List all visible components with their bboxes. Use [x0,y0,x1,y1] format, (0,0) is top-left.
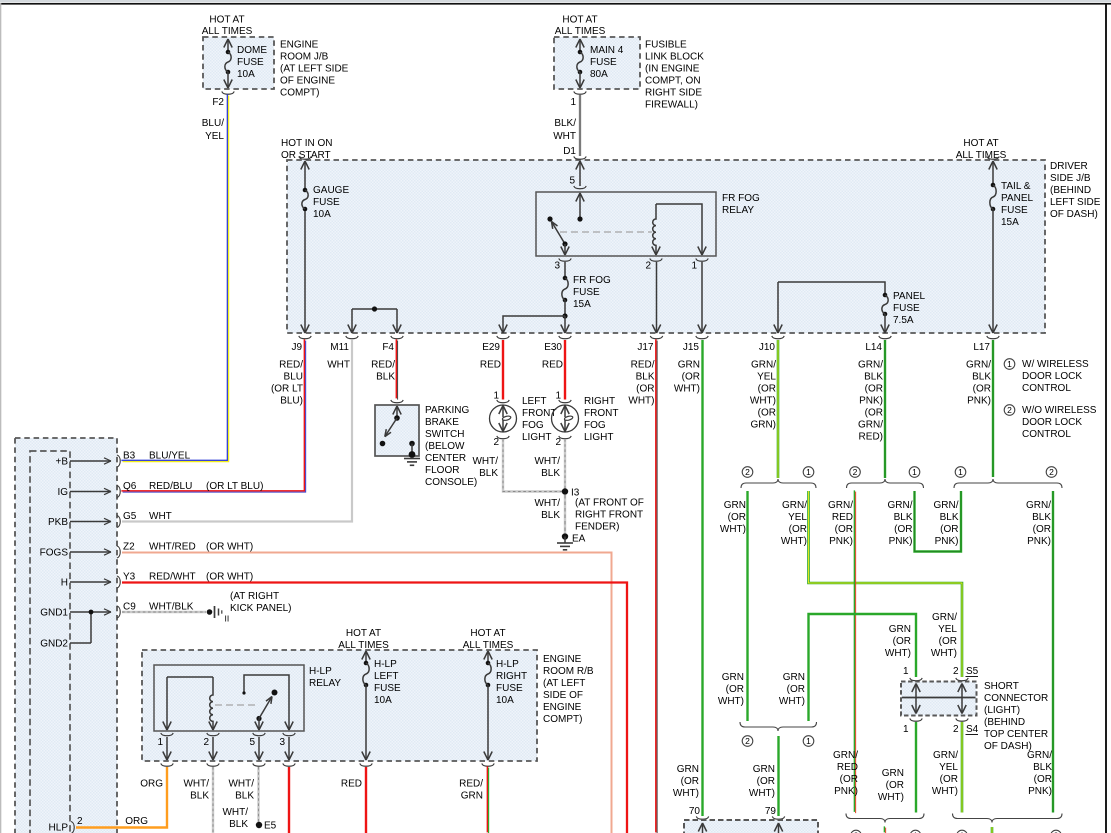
svg-text:(LIGHT): (LIGHT) [984,705,1020,716]
arrow into S5 pin2 [958,684,962,693]
svg-text:(OR: (OR [940,524,958,535]
svg-text:PNK): PNK) [967,396,991,407]
svg-text:L14: L14 [865,342,882,353]
ground EA [562,533,568,539]
arrow hlp pin1 [163,722,167,731]
svg-text:GRN/: GRN/ [933,750,958,761]
svg-text:BLK: BLK [541,468,560,479]
svg-text:3: 3 [554,261,560,272]
svg-text:WHT: WHT [553,131,576,142]
svg-text:ENGINE: ENGINE [543,654,582,665]
svg-text:COMPT): COMPT) [280,88,319,99]
svg-text:WHT): WHT) [885,648,911,659]
wire GRN S5 pin1 loop to merge [809,614,917,721]
svg-text:ROOM J/B: ROOM J/B [280,52,329,63]
svg-text:BLK: BLK [229,819,248,830]
svg-text:FUSE: FUSE [573,287,600,298]
parking brake right contact [409,441,415,447]
svg-text:+B: +B [55,457,68,468]
circled 2 at merge A [851,830,862,833]
svg-text:RIGHT: RIGHT [496,671,527,682]
svg-text:FR FOG: FR FOG [573,275,611,286]
svg-text:RED/: RED/ [371,360,395,371]
wire WHT/BLK pin5 to E5 [257,767,259,822]
svg-text:FLOOR: FLOOR [425,465,459,476]
svg-text:J15: J15 [683,342,700,353]
connector left fog pin 2 [497,436,509,439]
svg-text:GRN/: GRN/ [751,360,776,371]
wire GRN/BLK L17 to split [992,340,994,477]
circled 2 at merge B [1051,830,1062,833]
svg-text:(OR: (OR [787,684,805,695]
connector parking brake [391,400,403,403]
svg-text:OF DASH): OF DASH) [1050,209,1098,220]
svg-text:WHT/: WHT/ [534,456,560,467]
arrow relay pin2 [652,247,656,256]
legend circled 1 [1004,359,1015,370]
svg-text:H: H [61,578,68,589]
arrow into S5 pin1 [912,684,916,693]
svg-text:15A: 15A [573,299,591,310]
connector J15 [696,336,708,339]
svg-text:SIDE OF: SIDE OF [543,690,583,701]
svg-text:FUSE: FUSE [374,683,401,694]
svg-text:RED/: RED/ [279,360,303,371]
short connector bus bar [902,697,976,699]
wire pin3 to fuse [564,262,566,278]
svg-text:WHT): WHT) [779,696,805,707]
svg-text:(OR LT: (OR LT [271,384,303,395]
svg-text:ENGINE: ENGINE [280,40,319,51]
svg-text:WHT): WHT) [718,696,744,707]
wire GRN/BLK L14 to split [884,340,886,478]
svg-text:1: 1 [157,737,163,748]
wire RED/BLK J17 down [655,339,657,832]
svg-text:GND2: GND2 [40,639,68,650]
junction on branch [372,306,377,311]
svg-text:Q6: Q6 [123,481,137,492]
wire RED/BLU J9 to Q6 [121,339,304,491]
svg-text:CENTER: CENTER [425,453,466,464]
arrow hlp pin2 [209,722,213,731]
wire GRN/BLK jumper L14-1 to L17-1 [915,491,962,552]
svg-text:GRN/: GRN/ [782,500,807,511]
svg-text:(OR: (OR [636,384,654,395]
svg-text:RED/: RED/ [631,360,655,371]
svg-text:(OR: (OR [1034,774,1052,785]
svg-text:LEFT SIDE: LEFT SIDE [1050,197,1101,208]
svg-text:WHT): WHT) [674,384,700,395]
junction I3 [562,488,568,494]
merge bracket B [953,814,1063,823]
svg-text:HOT AT: HOT AT [470,628,505,639]
svg-text:GRN/: GRN/ [934,500,959,511]
circled 1 at J10 split [803,467,814,478]
svg-text:J17: J17 [637,342,654,353]
wire GRN/BLK L17-2 down [1052,491,1054,813]
switch PARKING BRAKE SWITCH box [375,405,419,456]
circled 2 at L14 split [850,467,861,478]
svg-text:LIGHT: LIGHT [584,432,613,443]
svg-text:RED: RED [832,512,853,523]
svg-text:1: 1 [555,391,561,402]
bottom junction box [684,820,818,833]
ground E5 [256,822,262,828]
svg-text:WHT/RED: WHT/RED [149,542,196,553]
circled 1 at merge A [910,830,921,833]
svg-text:RED: RED [480,360,501,371]
merge bracket 70/79 [740,722,817,731]
arrow into main4 [576,39,580,48]
wire main4 to pin1 [579,72,581,88]
svg-text:S4: S4 [966,724,979,735]
svg-text:5: 5 [569,176,575,187]
svg-text:2: 2 [645,261,651,272]
arrow hlp pin 2 exit [209,752,213,761]
svg-text:WHT): WHT) [750,396,776,407]
arrow J10 exit [774,325,778,334]
fuse H-LP RIGHT FUSE 10A [486,661,491,666]
connector tail entry [987,156,999,159]
wire D1 to relay pin5 [579,161,581,186]
arrow gauge entry [301,161,305,170]
svg-text:2: 2 [1007,405,1012,415]
svg-text:PNK): PNK) [1027,536,1051,547]
svg-text:(AT LEFT SIDE: (AT LEFT SIDE [280,64,349,75]
svg-text:10A: 10A [237,69,255,80]
arrow into pin 70 [698,823,702,832]
svg-text:MAIN 4: MAIN 4 [590,45,624,56]
svg-text:WHT): WHT) [628,396,654,407]
svg-text:1: 1 [806,467,811,477]
short connector block box [901,682,977,716]
wire RED pin3 down [288,767,290,833]
ground parking brake [404,458,420,460]
arrow L14 exit [881,325,885,334]
svg-text:LIGHT: LIGHT [522,432,551,443]
wire relay pin1 to J15 [701,262,703,333]
connector block outer box [15,438,117,833]
svg-text:IG: IG [57,487,68,498]
svg-text:GRN: GRN [677,764,699,775]
svg-text:2: 2 [555,437,561,448]
svg-text:(OR: (OR [681,776,699,787]
hlp relay blade [256,716,261,721]
svg-text:GRN/: GRN/ [888,500,913,511]
connector hlp pin 3 block exit [283,763,295,766]
connector hlp pin 1 block exit [161,763,173,766]
svg-text:10A: 10A [374,695,392,706]
svg-text:CONTROL: CONTROL [1022,383,1071,394]
circled 2 at J10 split [742,467,753,478]
svg-text:W/ WIRELESS: W/ WIRELESS [1022,359,1089,370]
svg-text:WHT/: WHT/ [228,779,254,790]
junction block ENGINE ROOM J/B [203,37,274,89]
svg-text:DOOR LOCK: DOOR LOCK [1022,417,1082,428]
connector hlp relay pin 3 [283,733,295,736]
arrow tail entry [989,161,993,170]
connector S4 pin1 cup [910,718,922,721]
arrow into parking brake [393,406,397,415]
arrow relay pin3 [561,247,565,256]
svg-text:2: 2 [77,816,83,827]
svg-text:GRN: GRN [461,791,483,802]
svg-text:WHT): WHT) [673,788,699,799]
svg-text:GRN/: GRN/ [833,750,858,761]
relay switch blade [552,222,566,245]
arrow hlp right fuse entry [484,651,488,660]
connector E30 [559,336,571,339]
svg-text:WHT): WHT) [749,788,775,799]
fuse PANEL FUSE 7.5A [883,293,888,298]
svg-text:1: 1 [691,261,697,272]
svg-text:PKB: PKB [48,517,68,528]
wire gauge to J9 [304,211,306,333]
svg-text:(OR: (OR [940,774,958,785]
wire dome to F2 [227,72,229,88]
svg-text:RED/: RED/ [459,779,483,790]
svg-text:L17: L17 [973,342,990,353]
svg-text:H-LP: H-LP [496,659,519,670]
svg-text:1: 1 [493,391,499,402]
fusible link block [554,37,640,89]
wire GRN J15 to pin70 [701,340,703,816]
svg-text:GRN/: GRN/ [828,500,853,511]
svg-text:RIGHT FRONT: RIGHT FRONT [575,510,643,521]
arrow J17 exit [652,325,656,334]
wire RED E30 to right fog [564,340,566,400]
wire WHT/BLK pin2 down [212,767,214,833]
svg-text:SWITCH: SWITCH [425,429,464,440]
svg-text:80A: 80A [590,69,608,80]
connector relay pin 3 [559,258,571,261]
svg-text:GRN: GRN [882,768,904,779]
arrow L17 exit [989,325,993,334]
svg-text:PNK): PNK) [834,786,858,797]
svg-text:PNK): PNK) [829,536,853,547]
wire branch to E29 [503,316,565,333]
svg-text:(OR: (OR [1033,524,1051,535]
wire GRN J10-2 to merge [746,491,748,721]
svg-text:(OR: (OR [939,636,957,647]
svg-text:FUSE: FUSE [496,683,523,694]
svg-text:(OR: (OR [757,776,775,787]
svg-text:WHT/: WHT/ [183,779,209,790]
wire GRN/YEL J10-1 to S5 pin2 [809,491,963,677]
relay FR FOG RELAY box [536,192,716,256]
connector hlp left fuse exit [360,763,372,766]
arrow relay pin1 [698,247,702,256]
relay H-LP RELAY box [154,665,304,731]
wire WHT/BLK right fog to I3 [564,439,566,489]
relay block ENGINE ROOM R/B [142,650,537,761]
connector gauge entry [299,156,311,159]
wire BLU/YEL F2 to B3 [121,94,227,460]
connector F2 [222,91,234,94]
hlp relay actuation dashed link [215,704,256,706]
wire panel to L14 [884,314,886,333]
svg-text:WHT): WHT) [878,792,904,803]
svg-text:WHT: WHT [327,360,350,371]
svg-text:EA: EA [572,534,586,545]
svg-text:B3: B3 [123,451,136,462]
svg-text:1: 1 [903,666,909,677]
svg-text:H-LP: H-LP [374,659,397,670]
wire tail feed [992,161,994,185]
wire hlp pin 3 drop [288,737,290,760]
svg-text:(AT FRONT OF: (AT FRONT OF [575,498,644,509]
svg-text:(OR: (OR [865,384,883,395]
circled 1 at L14 split [909,467,920,478]
svg-text:BLU): BLU) [280,396,303,407]
svg-text:(AT LEFT: (AT LEFT [543,678,585,689]
svg-text:FOG: FOG [584,420,606,431]
svg-text:HOT IN ON: HOT IN ON [281,138,332,149]
svg-text:(OR: (OR [789,524,807,535]
arrow E29 exit [499,325,503,334]
connector hlp pin 5 block exit [253,763,265,766]
svg-text:WHT): WHT) [781,536,807,547]
svg-text:BLK: BLK [864,372,883,383]
wire GRN/YEL merged stub B [991,827,994,833]
svg-text:(OR: (OR [865,408,883,419]
svg-text:BRAKE: BRAKE [425,417,459,428]
svg-text:OF ENGINE: OF ENGINE [280,76,335,87]
fuse GAUGE FUSE 10A [303,188,308,193]
svg-text:79: 79 [765,806,777,817]
wire WHT M11 to G5 [122,340,352,522]
circled 2 at 79 merge [742,736,753,747]
svg-text:PNK): PNK) [859,396,883,407]
wire WHT/BLK C9 to ground [122,611,206,613]
wire RED/GRN hlp right down [486,766,488,832]
connector block inner box [30,451,70,833]
wire RED/WHT Y3 down right side [122,583,627,833]
svg-text:2: 2 [493,437,499,448]
svg-text:(BEHIND: (BEHIND [984,717,1025,728]
svg-text:S5: S5 [966,666,979,677]
svg-text:ALL TIMES: ALL TIMES [338,640,389,651]
wire hlp pin 2 drop [212,737,214,760]
circled 1 at 79 merge [803,736,814,747]
svg-text:PNK): PNK) [935,536,959,547]
svg-text:RED: RED [542,360,563,371]
svg-text:GAUGE: GAUGE [313,185,349,196]
arrow out S4 pin2 [958,705,962,714]
svg-text:FRONT: FRONT [584,408,618,419]
svg-text:TOP CENTER: TOP CENTER [984,729,1048,740]
svg-text:7.5A: 7.5A [893,315,914,326]
arrow hlp left fuse entry [362,651,366,660]
wire BLK/WHT to D1 [579,95,581,156]
arrow main4 exit [576,80,580,89]
wire RED/BLK F4 to switch [395,339,397,398]
svg-text:GRN/: GRN/ [858,420,883,431]
wire hlp right fuse down [487,685,489,760]
svg-text:M11: M11 [330,342,349,353]
wire GRN/YEL J10 to split [777,340,780,478]
relay switch pivot [562,241,567,246]
connector relay pin 2 [650,258,662,261]
svg-text:J9: J9 [291,342,302,353]
svg-text:WHT): WHT) [932,786,958,797]
svg-text:2: 2 [953,724,959,735]
svg-text:(OR: (OR [893,636,911,647]
svg-text:COMPT, ON: COMPT, ON [645,76,701,87]
wire relay pin2 to J17 [656,262,658,333]
svg-text:RED: RED [341,779,362,790]
parking brake left contact [380,441,386,447]
svg-text:LEFT: LEFT [522,396,546,407]
svg-text:CONNECTOR: CONNECTOR [984,693,1048,704]
arrow J15 exit [698,325,702,334]
svg-text:BLK: BLK [940,512,959,523]
wire WHT/BLK left fog to I3 [503,439,563,492]
arrow hlp pin 1 exit [163,752,167,761]
svg-text:RIGHT SIDE: RIGHT SIDE [645,88,702,99]
relay switch fixed contact [547,216,552,221]
svg-text:1: 1 [903,724,909,735]
svg-text:(OR: (OR [840,774,858,785]
svg-text:GRN: GRN [724,500,746,511]
svg-text:RIGHT: RIGHT [584,396,615,407]
svg-text:HLP: HLP [49,823,69,833]
wire hlp right feed [487,651,489,663]
connector 1 (fusible link) [574,91,586,94]
split bracket L17 [954,479,1062,488]
svg-text:FENDER): FENDER) [575,522,619,533]
svg-text:ALL TIMES: ALL TIMES [463,640,514,651]
svg-text:G5: G5 [123,511,137,522]
svg-text:RED/BLU: RED/BLU [149,481,192,492]
svg-text:FUSE: FUSE [237,57,264,68]
svg-text:BLU/: BLU/ [202,118,224,129]
svg-text:DRIVER: DRIVER [1050,161,1088,172]
merge bracket A [846,814,924,823]
svg-text:10A: 10A [496,695,514,706]
svg-text:3: 3 [279,737,285,748]
svg-text:LEFT: LEFT [374,671,398,682]
svg-text:ORG: ORG [140,779,163,790]
svg-text:(OR: (OR [682,372,700,383]
wire dome feed [227,39,229,52]
svg-text:FUSE: FUSE [590,57,617,68]
svg-text:SHORT: SHORT [984,681,1019,692]
svg-text:ALL TIMES: ALL TIMES [555,26,606,37]
lamp LEFT FRONT FOG LIGHT [490,405,517,432]
hlp relay left bus [167,676,213,678]
svg-text:FUSIBLE: FUSIBLE [645,40,687,51]
wire fuse to junction [564,300,566,316]
svg-text:ALL TIMES: ALL TIMES [202,26,253,37]
wire to E30 [564,316,566,333]
relay coil [653,204,656,255]
arrow dome exit [224,80,228,89]
arrow hlp pin3 [285,722,289,731]
svg-text:WHT): WHT) [931,648,957,659]
arrow F4 exit [393,325,397,334]
arrow hlp pin 3 exit [285,752,289,761]
ground II kick panel [207,609,213,615]
split bracket J10 [741,479,816,488]
svg-text:GRN/: GRN/ [858,360,883,371]
svg-text:CONTROL: CONTROL [1022,429,1071,440]
svg-text:PNK): PNK) [1028,786,1052,797]
svg-text:E29: E29 [482,342,500,353]
svg-text:FUSE: FUSE [313,197,340,208]
svg-text:CONSOLE): CONSOLE) [425,477,477,488]
svg-text:(OR: (OR [728,512,746,523]
